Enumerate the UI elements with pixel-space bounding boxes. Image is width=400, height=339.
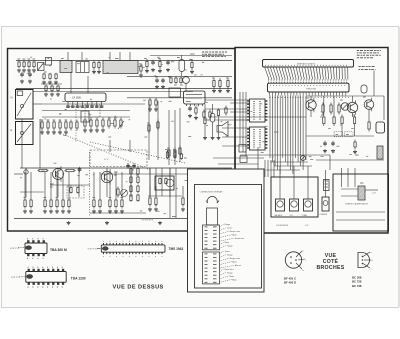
svg-text:BF 456 D: BF 456 D — [284, 281, 296, 285]
svg-text:Rouge noire: Rouge noire — [230, 230, 240, 233]
svg-text:VUE ARRIERE: VUE ARRIERE — [276, 224, 289, 227]
svg-text:CHARGE D'ALIMENTATION: CHARGE D'ALIMENTATION — [345, 203, 369, 206]
svg-text:TDA 1230: TDA 1230 — [71, 276, 86, 280]
svg-text:+12 V: +12 V — [372, 193, 378, 195]
svg-text:Alarme: Alarme — [235, 264, 241, 267]
svg-text:Noire: Noire — [230, 275, 235, 278]
svg-text:VOIR TP 1B: VOIR TP 1B — [88, 249, 98, 251]
svg-text:Blanc: Blanc — [232, 262, 237, 264]
svg-text:VUE ARRIERE: VUE ARRIERE — [141, 219, 154, 222]
svg-text:Haute tens.: Haute tens. — [235, 237, 245, 240]
svg-text:Rouge noire: Rouge noire — [230, 257, 240, 260]
svg-text:VOIR TP 16: VOIR TP 16 — [10, 248, 19, 250]
svg-text:Blanc: Blanc — [232, 279, 237, 281]
svg-text:Jaune: Jaune — [225, 251, 230, 253]
svg-text:Rouge: Rouge — [225, 224, 231, 226]
svg-text:TONAL.: TONAL. — [302, 214, 309, 217]
svg-text:M: M — [11, 97, 13, 100]
svg-text:CONNECTEUR VERSATI: CONNECTEUR VERSATI — [200, 191, 224, 194]
svg-text:VUE: VUE — [325, 253, 337, 259]
svg-text:VUE DE DESSUS: VUE DE DESSUS — [113, 285, 164, 291]
svg-text:BC 738: BC 738 — [352, 284, 362, 288]
svg-text:BROCHES: BROCHES — [316, 265, 344, 271]
svg-text:VOIR TP 17: VOIR TP 17 — [11, 277, 20, 279]
svg-text:Rouge: Rouge — [227, 255, 233, 257]
svg-text:Rouge: Rouge — [227, 245, 233, 247]
svg-text:LUMIERE: LUMIERE — [320, 214, 328, 216]
svg-text:CA 3089: CA 3089 — [72, 97, 82, 100]
svg-text:HP: HP — [229, 125, 233, 127]
svg-text:Noire: Noire — [225, 241, 230, 244]
svg-text:Jaune: Jaune — [227, 228, 232, 230]
svg-text:VOL.: VOL. — [290, 215, 294, 217]
svg-text:TMS 1943: TMS 1943 — [169, 247, 184, 251]
svg-text:TMS 1943: TMS 1943 — [306, 88, 316, 90]
svg-text:TBA 820 M: TBA 820 M — [50, 248, 67, 252]
svg-text:VOL.: VOL. — [305, 225, 310, 227]
svg-text:Rouge: Rouge — [227, 272, 233, 274]
svg-text:Blanc: Blanc — [232, 235, 237, 237]
svg-text:17 V: 17 V — [104, 159, 109, 161]
svg-text:BALANCE: BALANCE — [275, 214, 284, 217]
svg-text:Haute tens.: Haute tens. — [225, 268, 235, 271]
